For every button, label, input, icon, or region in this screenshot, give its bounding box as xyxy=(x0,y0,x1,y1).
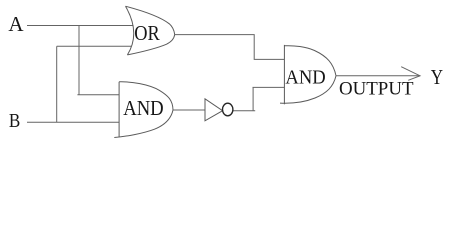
or-gate OR top edge xyxy=(126,6,175,34)
svg-text:AND: AND xyxy=(285,66,325,88)
wire AND1 output to NOT input xyxy=(173,109,205,111)
and-gate AND2 top arc xyxy=(284,46,336,76)
and-gate AND1 left edge xyxy=(118,82,120,137)
svg-text:OUTPUT: OUTPUT xyxy=(339,80,414,100)
wire B branch vertical xyxy=(56,46,58,122)
svg-text:Y: Y xyxy=(431,65,443,89)
wire B horizontal xyxy=(27,121,119,123)
wire NOT output xyxy=(233,110,255,112)
and-gate AND2 left edge xyxy=(283,45,285,104)
svg-text:A: A xyxy=(8,12,24,36)
wire AND2 output xyxy=(336,75,420,77)
svg-text:OR: OR xyxy=(134,21,160,45)
arrowhead xyxy=(401,67,420,81)
wire B branch to OR bottom input xyxy=(57,45,132,47)
svg-text:AND: AND xyxy=(123,96,164,120)
wire A horizontal xyxy=(27,25,134,27)
inverter NOT bubble xyxy=(223,103,233,116)
inverter NOT triangle xyxy=(205,99,223,121)
and-gate AND1 bottom arc xyxy=(114,110,173,138)
wire A branch to AND1 top input xyxy=(77,94,119,96)
wire A branch vertical xyxy=(78,26,80,95)
or-gate OR bottom edge xyxy=(127,35,174,55)
svg-text:B: B xyxy=(9,110,20,132)
or-gate OR back arc xyxy=(126,6,134,55)
wire NOT output riser to AND2 bottom input xyxy=(253,87,285,110)
wire OR output to AND2 top input xyxy=(175,35,285,60)
and-gate AND2 bottom arc xyxy=(280,76,336,103)
and-gate AND1 top arc xyxy=(119,82,173,110)
